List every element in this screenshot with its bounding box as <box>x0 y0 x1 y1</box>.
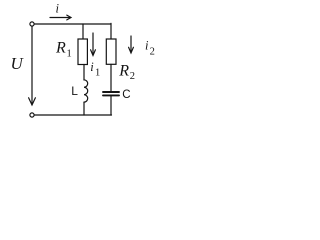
wire left (from top terminal down) <box>31 26 33 104</box>
svg-text:U: U <box>11 54 25 73</box>
svg-text:1: 1 <box>95 68 100 79</box>
svg-text:C: C <box>122 89 130 101</box>
svg-text:L: L <box>71 84 78 98</box>
svg-text:2: 2 <box>130 71 135 82</box>
svg-text:i: i <box>56 1 60 15</box>
svg-text:1: 1 <box>67 49 72 60</box>
resistor R1 <box>78 39 87 65</box>
svg-text:R: R <box>55 40 66 57</box>
voltage arrowhead (down) <box>29 98 36 105</box>
arrow i1 <box>92 33 94 55</box>
wire R1 to L <box>83 65 85 81</box>
wire R2 branch corner <box>110 23 112 39</box>
inductor L coil <box>84 80 88 102</box>
svg-text:i: i <box>90 60 94 74</box>
svg-text:R: R <box>118 63 129 80</box>
wire C to bottom <box>110 96 112 115</box>
wire top node <box>34 23 111 25</box>
arrow i2 <box>130 36 132 52</box>
capacitor C plates <box>103 91 119 93</box>
wire R1 branch top <box>82 24 84 39</box>
terminal top-left <box>30 22 34 26</box>
terminal bottom-left <box>30 113 34 117</box>
resistor R2 <box>106 39 116 64</box>
svg-text:i: i <box>145 38 149 52</box>
wire L to bottom <box>83 102 85 115</box>
svg-text:2: 2 <box>150 46 155 57</box>
wire R2 to C <box>110 64 112 91</box>
wire bottom node <box>34 114 111 116</box>
current arrow i (top) <box>50 17 71 19</box>
